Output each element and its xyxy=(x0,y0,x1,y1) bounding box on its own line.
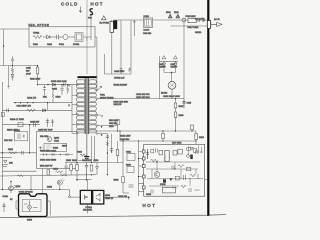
capacitor C601 (in box) xyxy=(57,35,63,39)
svg-text:IC802: IC802 xyxy=(53,148,58,150)
subboard transistor Q802 xyxy=(154,172,160,178)
resistor R806 xyxy=(114,177,125,183)
wire into opto notch xyxy=(87,180,89,191)
svg-text:C613 50V: C613 50V xyxy=(120,139,130,141)
svg-text:NO FUSE: NO FUSE xyxy=(100,23,110,25)
wire LF down left xyxy=(120,20,122,74)
svg-text:R610 C610 250V: R610 C610 250V xyxy=(114,102,129,104)
svg-text:R810: R810 xyxy=(8,149,14,151)
text above rail y141 xyxy=(120,136,130,141)
bridge top link xyxy=(160,60,179,62)
optocoupler PC801 left half xyxy=(80,190,91,204)
svg-text:R611 1/4W: R611 1/4W xyxy=(30,79,40,81)
transformer T601 core top bar xyxy=(78,76,97,78)
AC neutral short rail xyxy=(171,25,208,27)
link x163 between rails xyxy=(162,130,165,141)
resistor above LED xyxy=(53,169,63,173)
transformer left bus xyxy=(71,85,73,134)
transformer tap arrow xyxy=(98,86,102,90)
transistor Q804 on rail xyxy=(3,181,21,198)
svg-text:HOT: HOT xyxy=(91,1,104,6)
svg-text:C815 25V: C815 25V xyxy=(30,122,40,124)
texts above rails left xyxy=(4,97,53,143)
resistor vertical on y175 xyxy=(47,170,108,176)
rail y141 right xyxy=(120,140,197,141)
parts above feedback box xyxy=(46,119,54,128)
small box on left edge xyxy=(1,113,4,117)
junction dots on rail y84.7 xyxy=(47,84,68,85)
svg-text:C611: C611 xyxy=(26,68,32,70)
left lower vertical to opto rail xyxy=(2,171,3,190)
diode D801 vertical xyxy=(94,160,100,175)
subboard rect C824 xyxy=(178,149,182,154)
diode D605 on rail xyxy=(52,83,55,86)
svg-text:C602 250V: C602 250V xyxy=(114,71,125,73)
svg-text:47uF: 47uF xyxy=(26,74,31,76)
svg-text:C607 1KV 102: C607 1KV 102 xyxy=(136,97,150,99)
svg-text:HOT GND: HOT GND xyxy=(172,143,182,145)
diode D608 (in box) xyxy=(43,35,57,38)
svg-text:F601 T3.15A: F601 T3.15A xyxy=(188,26,200,29)
capacitor C609 on rail xyxy=(64,83,66,86)
R607 chain vertical xyxy=(174,99,184,131)
transformer core band xyxy=(85,78,89,134)
subboard rect R825 xyxy=(173,151,177,155)
capacitor on rail y110.3 xyxy=(7,109,9,113)
secondary cluster vertical A xyxy=(100,134,109,175)
vertical x94.7 lower xyxy=(94,136,96,163)
text C806 xyxy=(118,196,128,198)
secondary top rail xyxy=(98,89,184,99)
left column vertical xyxy=(7,66,9,89)
text AC input labels xyxy=(195,18,220,35)
svg-text:Q801: Q801 xyxy=(54,138,60,140)
svg-text:R607: R607 xyxy=(179,106,185,108)
svg-text:BD601: BD601 xyxy=(161,93,168,95)
components left of subboard xyxy=(126,151,135,187)
svg-text:SMPS TRANS: SMPS TRANS xyxy=(100,96,114,99)
svg-text:C805 1K: C805 1K xyxy=(105,198,114,200)
svg-text:ERR AMP 5V: ERR AMP 5V xyxy=(40,165,53,168)
svg-text:SA201: SA201 xyxy=(195,31,202,34)
svg-text:R809: R809 xyxy=(105,195,111,197)
svg-text:C829: C829 xyxy=(146,194,152,196)
svg-text:0.4mH: 0.4mH xyxy=(144,30,150,32)
top small text near fuse xyxy=(88,18,93,20)
DEG. OPTION label xyxy=(29,24,50,27)
text cap labels mid right xyxy=(136,94,150,99)
subboard cap C822 xyxy=(146,149,157,160)
secondary cluster vertical B xyxy=(95,120,119,153)
warning triangle near fuse xyxy=(100,16,110,25)
subboard IC805 bottom xyxy=(163,187,176,193)
svg-text:R608: R608 xyxy=(179,115,185,117)
cold/hot boundary line xyxy=(86,0,88,74)
svg-text:ZD61: ZD61 xyxy=(166,12,171,14)
hanging parts at x44.5 xyxy=(43,85,46,96)
zigzag on y175 rail left xyxy=(18,175,24,177)
svg-text:IC805: IC805 xyxy=(160,184,166,186)
svg-text:C817 16V: C817 16V xyxy=(4,140,13,142)
svg-text:C814: C814 xyxy=(54,141,60,143)
subboard parts right top xyxy=(196,150,203,154)
primary circuit rail y84.7 xyxy=(37,84,77,85)
resistor R612 vertical xyxy=(36,65,39,77)
transformer ground blob xyxy=(84,157,89,160)
vertical x31 lower xyxy=(30,176,31,190)
IC801 label xyxy=(10,192,33,201)
left bias rail y65.5 xyxy=(0,65,28,66)
resistor R611 xyxy=(11,66,13,75)
right vertical x123 xyxy=(122,141,124,193)
junction dots above opto xyxy=(76,179,91,181)
vertical x120 link xyxy=(119,130,120,141)
degauss coil connector (dark) xyxy=(113,20,117,29)
svg-text:1N4007: 1N4007 xyxy=(159,67,166,69)
svg-text:R619: R619 xyxy=(77,152,83,154)
HOT label bottom xyxy=(143,203,157,208)
wire relay to hot side xyxy=(83,33,91,41)
svg-text:C806 104: C806 104 xyxy=(118,196,128,198)
snubber near transformer bottom xyxy=(77,152,87,161)
svg-text:IC801 DP104C: IC801 DP104C xyxy=(19,192,33,194)
degauss option box xyxy=(29,27,95,47)
fuse F602 on rail xyxy=(186,16,200,29)
transformer shield wire xyxy=(86,134,88,156)
hanging capacitor at x62 xyxy=(60,85,63,95)
fusible triangle 1 xyxy=(166,12,172,18)
svg-text:D803: D803 xyxy=(47,187,53,189)
left drop wire xyxy=(3,29,4,66)
subboard bottom texts xyxy=(146,184,166,196)
left edge vertical xyxy=(2,82,4,171)
subboard bottom parts xyxy=(151,185,200,193)
capacitor C611 above rail xyxy=(11,57,14,66)
svg-text:LF602 0.47: LF602 0.47 xyxy=(114,78,125,80)
text under rail y102.7 xyxy=(16,105,31,107)
subboard pin pads xyxy=(142,150,145,189)
subboard dark spot right xyxy=(190,155,193,160)
subboard pin stubs xyxy=(138,152,144,192)
svg-text:HOT: HOT xyxy=(143,203,157,208)
transformer right pins xyxy=(95,89,101,134)
LED indicator D803 xyxy=(47,178,65,188)
vertical drop to subboard xyxy=(195,131,197,144)
svg-text:COLD: COLD xyxy=(61,1,79,6)
svg-text:C610 50V: C610 50V xyxy=(109,123,118,125)
svg-text:TH601: TH601 xyxy=(33,33,40,35)
svg-text:PC801: PC801 xyxy=(86,207,93,209)
svg-text:T601: T601 xyxy=(100,95,106,97)
warning triangle D602 xyxy=(174,56,178,59)
svg-text:R615 1/2W: R615 1/2W xyxy=(120,136,130,138)
optocoupler PC801 right half xyxy=(93,190,104,204)
bottom-left rail y171 xyxy=(3,170,37,172)
bridge rectifier BD601 xyxy=(161,81,176,94)
wire feedback box to IC801 xyxy=(41,169,43,194)
svg-text:1N4007: 1N4007 xyxy=(171,67,178,69)
svg-text:Q804: Q804 xyxy=(16,186,21,188)
svg-text:P601: P601 xyxy=(59,44,65,46)
svg-text:50V: 50V xyxy=(26,71,30,73)
fuse F601 xyxy=(110,21,114,32)
connector block left xyxy=(14,130,28,141)
svg-text:C605: C605 xyxy=(187,103,192,105)
resistor R811 on x91.5 xyxy=(90,165,93,171)
rail y157.5 left xyxy=(0,157,12,159)
capacitor C802 xyxy=(82,160,92,180)
svg-text:R803 R804 C804: R803 R804 C804 xyxy=(40,151,57,153)
wire from LED down xyxy=(59,185,60,190)
feedback box xyxy=(37,132,78,169)
subboard IC804 tall xyxy=(165,151,169,162)
opto area rail y189.5 xyxy=(0,189,70,191)
svg-text:LF601: LF601 xyxy=(144,16,149,18)
svg-text:C821: C821 xyxy=(126,151,132,153)
text below IC801 xyxy=(27,220,33,222)
text labels in degauss box xyxy=(33,44,80,46)
snubber parts on filter verticals xyxy=(120,68,131,72)
transformer left pins xyxy=(72,84,78,134)
mid rail y131 xyxy=(77,130,196,131)
svg-text:D610: D610 xyxy=(109,126,114,128)
svg-text:D809: D809 xyxy=(27,220,33,222)
svg-text:3.15A: 3.15A xyxy=(3,195,9,198)
svg-text:R606: R606 xyxy=(56,97,62,99)
main switching IC (rounded) xyxy=(19,194,48,217)
wire degauss box to transformer xyxy=(95,37,97,89)
resistor R802 xyxy=(72,160,78,180)
part above rail y131 right xyxy=(191,125,194,132)
tiny pin numbers left of transformer xyxy=(69,85,71,107)
thermistor TH601 (in box) xyxy=(33,33,42,39)
resistor R805 xyxy=(66,160,72,175)
diode D616 on rail y110.3 xyxy=(43,109,46,112)
vertical x47.5 xyxy=(47,103,49,111)
inner IC rect in feedback box xyxy=(44,143,67,151)
wire opto to subboard xyxy=(104,196,130,199)
box internal row xyxy=(39,146,74,167)
thermistor circle on rail xyxy=(182,18,186,22)
transistor Q801 in box xyxy=(47,137,60,143)
svg-text:D801: D801 xyxy=(94,160,100,162)
svg-text:C603 102: C603 102 xyxy=(143,33,151,35)
subboard bus x138.5 xyxy=(138,141,140,196)
bridge feed vertical xyxy=(159,56,161,99)
wire opto bottom xyxy=(87,204,89,214)
rail y124.7 xyxy=(3,124,41,125)
AC hot rail top xyxy=(114,19,208,21)
text above rail y84.7 xyxy=(51,81,68,91)
diode D601 xyxy=(159,61,166,72)
diode D602 xyxy=(171,61,178,72)
rail y102.7 xyxy=(14,102,72,104)
svg-text:R610 1/2W: R610 1/2W xyxy=(109,120,119,122)
wire from degauss connector xyxy=(90,15,92,33)
power board edge bar xyxy=(207,0,209,216)
svg-text:R821: R821 xyxy=(126,165,132,167)
arrow wire x134.4 xyxy=(133,20,135,36)
snubber below rail xyxy=(52,90,61,103)
subboard inner rails xyxy=(146,162,203,186)
subboard dark spot lower xyxy=(163,179,166,182)
svg-text:BD601 5A/600V: BD601 5A/600V xyxy=(114,84,128,87)
subboard junction circle xyxy=(187,155,190,158)
svg-text:C812 470: C812 470 xyxy=(27,98,37,100)
left cluster diode cap xyxy=(2,160,14,166)
tiny pin numbers right of transformer xyxy=(101,116,104,137)
subboard dark triangle xyxy=(170,178,173,181)
svg-text:D802 C803 R808: D802 C803 R808 xyxy=(40,160,57,162)
svg-text:R806: R806 xyxy=(114,180,120,182)
resistor R810 on rail xyxy=(8,149,17,154)
svg-text:DEG. OPTION: DEG. OPTION xyxy=(29,24,50,27)
vertical x91 lower xyxy=(91,136,93,163)
border bottom line xyxy=(0,215,226,218)
ground arrow near header xyxy=(79,7,82,13)
cluster above opto rail xyxy=(65,162,123,163)
svg-text:ZD62: ZD62 xyxy=(174,12,179,14)
wire fuse to AC rail xyxy=(111,20,113,21)
opto label xyxy=(83,207,93,212)
subboard rects row3 xyxy=(175,174,198,180)
svg-text:D601: D601 xyxy=(33,44,39,46)
small box on rail y124.7 xyxy=(18,123,23,127)
IC801 internals xyxy=(24,201,38,212)
posistor circle (in box) xyxy=(63,35,75,40)
svg-text:R805: R805 xyxy=(66,160,72,162)
transformer primary winding (left) xyxy=(76,80,84,133)
opto right text xyxy=(105,195,114,200)
R613 resistor xyxy=(195,134,205,140)
subboard stub to edge bar xyxy=(205,179,208,181)
wire into degauss box xyxy=(0,28,29,30)
capacitor C808 xyxy=(64,163,67,175)
rail y152.8 left xyxy=(0,152,37,153)
svg-text:C802 2KV: C802 2KV xyxy=(82,160,92,162)
degauss connector S symbol xyxy=(90,9,93,15)
subboard zigzag row2 xyxy=(151,159,191,171)
svg-text:R613: R613 xyxy=(199,137,205,139)
opto input pin xyxy=(69,190,81,198)
subboard right verticals xyxy=(187,146,202,156)
wire LF down right xyxy=(130,20,132,74)
capacitor C815 on rail xyxy=(34,123,36,127)
vertical x117.5 lower xyxy=(116,141,119,163)
capacitor CX601 near plug xyxy=(198,19,206,23)
subboard title xyxy=(172,143,182,145)
junction bridge xyxy=(164,72,176,82)
vertical x117.5 from pin xyxy=(100,126,118,132)
svg-text:R813: R813 xyxy=(53,169,59,171)
svg-text:R802: R802 xyxy=(72,160,78,162)
smoothing cap text xyxy=(163,96,180,98)
AC inlet connector on bar xyxy=(207,20,210,28)
AC plug symbol xyxy=(211,23,222,27)
rail y110.3 xyxy=(3,109,73,111)
wire x123 into subboard xyxy=(123,192,129,194)
transformer secondary winding (right) xyxy=(89,80,96,133)
svg-text:AC CORD: AC CORD xyxy=(195,18,205,21)
vertical x29.5 xyxy=(29,125,31,153)
subboard diode D821 xyxy=(190,147,193,150)
subboard small rect Q803 xyxy=(159,150,163,155)
svg-text:SE-C801: SE-C801 xyxy=(40,136,49,138)
hanging resistor at x67.7 xyxy=(67,85,69,94)
rail y175 bottom left xyxy=(0,175,96,176)
text block filter bottom xyxy=(114,84,129,107)
subboard inner vertical links xyxy=(152,155,196,186)
svg-text:D605 C609 L601: D605 C609 L601 xyxy=(51,81,68,83)
fusible triangle 2 xyxy=(174,12,180,18)
main filter cap C605 xyxy=(182,99,191,109)
svg-text:R611 1W: R611 1W xyxy=(114,104,122,106)
small part left edge bottom xyxy=(2,203,5,213)
connector block x117 xyxy=(116,120,120,126)
svg-text:R807: R807 xyxy=(62,146,68,148)
main HV vertical rail right xyxy=(183,20,185,99)
text block left column xyxy=(26,68,40,81)
wire r612 top xyxy=(28,66,38,85)
transformer label xyxy=(100,95,114,100)
junction dots rail y102.7 xyxy=(15,102,49,103)
lower AC rail xyxy=(104,54,131,74)
text rows mid-left xyxy=(10,119,40,123)
relay RY601 (in box) xyxy=(75,33,83,42)
feedback box labels row xyxy=(40,136,68,148)
svg-text:C815 50V 47uF: C815 50V 47uF xyxy=(38,129,53,131)
text LF lower labels xyxy=(114,71,125,80)
wire IC801 right pin xyxy=(47,201,50,216)
warning triangle D601 xyxy=(162,56,166,59)
cap on rail y152.8 xyxy=(22,151,24,155)
wire IC801 left pins xyxy=(16,201,19,209)
IC801 inner rect xyxy=(22,199,41,211)
wire fuse bottom down xyxy=(111,32,113,74)
COLD label xyxy=(61,1,79,6)
svg-text:C601: C601 xyxy=(47,44,53,46)
resistor R616 on rail y110.3 xyxy=(27,109,35,112)
svg-text:R816 4.7 1/2W: R816 4.7 1/2W xyxy=(10,119,24,121)
control subboard outline xyxy=(144,144,205,196)
svg-text:C606 2KV 471: C606 2KV 471 xyxy=(136,94,150,96)
line filter LF601 xyxy=(143,16,153,35)
svg-text:RY601: RY601 xyxy=(73,44,80,46)
diode D611 xyxy=(11,74,14,80)
svg-text:R812 1/4W: R812 1/4W xyxy=(7,130,17,132)
svg-text:AC IN: AC IN xyxy=(214,18,220,21)
HOT label xyxy=(91,1,104,6)
svg-text:C614 250V 474: C614 250V 474 xyxy=(16,105,31,107)
